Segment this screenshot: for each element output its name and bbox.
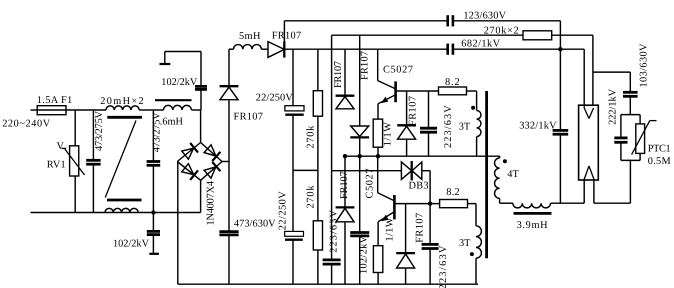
wire: rail2 left corner [332, 34, 523, 36]
svg-text:102/2kV: 102/2kV [359, 235, 370, 274]
svg-text:C5027: C5027 [365, 169, 376, 199]
wire: half-bridge midpoint [345, 155, 477, 157]
label 102/2kV top [161, 77, 198, 88]
bridge rectifier 1N4007X4 frame [177, 143, 222, 181]
svg-text:682/1kV: 682/1kV [461, 39, 500, 50]
svg-text:270k: 270k [306, 125, 317, 149]
label C5027 Q1 [383, 64, 413, 75]
svg-text:.6mH: .6mH [160, 117, 184, 128]
label 103/630V [638, 43, 649, 88]
transistor Q1 C5027 [378, 81, 396, 104]
label 4T [507, 169, 519, 180]
wire: 5mH to FR107 [261, 48, 268, 50]
wire: rail2 drop (startup node) [331, 35, 333, 260]
phase dot 3T upper [471, 106, 475, 110]
svg-text:473/275V: 473/275V [94, 110, 105, 151]
wire: divider midpoint [293, 169, 318, 171]
bridge diode D-br [204, 162, 220, 178]
resistor 270k upper [313, 49, 322, 221]
label RV1 [47, 160, 66, 171]
capacitor 682/1kV [448, 44, 453, 55]
svg-text:FR107: FR107 [408, 96, 419, 126]
diac DB3 [401, 161, 421, 180]
svg-text:22/250V: 22/250V [256, 93, 294, 104]
label .6mH [160, 117, 184, 128]
wire: lamp pin top-left [583, 49, 585, 108]
capacitor 102/2kV bottom stub [147, 213, 160, 254]
svg-text:8.2: 8.2 [446, 187, 459, 198]
capacitor 223/63V startup [323, 260, 341, 284]
resistor 1/1W Q2 emitter [373, 222, 382, 284]
label FR107 D1 [333, 61, 344, 88]
junction dot midpoint left [343, 154, 347, 158]
label DB3 [409, 181, 429, 192]
common-mode choke core bars and coupling [105, 117, 142, 200]
label 473/275V #2 [152, 112, 163, 153]
diode FR107 D4 (Q1 base) [397, 91, 416, 156]
svg-text:3.9mH: 3.9mH [517, 220, 549, 231]
svg-text:5mH: 5mH [239, 31, 261, 42]
svg-text:3T: 3T [459, 238, 471, 249]
label V [57, 141, 65, 152]
lamp filament bottom [584, 166, 594, 180]
fluorescent lamp tube [579, 105, 599, 180]
diode FR107 vertical (pump) [220, 49, 239, 99]
phase dot 4T [503, 159, 507, 163]
capacitor 103/630V [623, 72, 638, 115]
diode FR107 D1 [336, 49, 355, 109]
label 8.2 Q1 [445, 77, 460, 88]
label 270k×2 [484, 25, 519, 36]
wire: Q2 base wire [394, 203, 439, 205]
wire: AC neutral input bottom [31, 212, 201, 214]
svg-text:FR107: FR107 [272, 30, 301, 41]
capacitor 222/1kV [614, 115, 627, 161]
label 20mH×2 [100, 96, 144, 107]
label 3T lower [459, 238, 471, 249]
label 8.2 Q2 [446, 187, 459, 198]
capacitor 102/2kV mid [350, 156, 369, 284]
svg-text:103/630V: 103/630V [638, 43, 649, 88]
svg-text:22/250V: 22/250V [277, 191, 288, 231]
svg-text:0.5M: 0.5M [648, 156, 671, 167]
capacitor 102/2kV top with stub plate [160, 52, 208, 111]
wire: ground rail [178, 283, 478, 285]
label 1.5A F1 [37, 95, 73, 106]
bridge diode D-bl [182, 164, 198, 180]
wire: Q1 collector [377, 49, 379, 80]
wire: bridge bottom riser to neutral [200, 180, 202, 212]
resistor 1/1W Q1 emitter [373, 104, 382, 156]
svg-text:FR107: FR107 [234, 111, 263, 122]
thermistor PTC1 0.5M [632, 115, 657, 161]
wire: bridge minus to ground rail [177, 162, 179, 285]
junction dot input bottom [151, 210, 155, 214]
label 222/1kV [607, 88, 618, 125]
capacitor 473/630V [219, 232, 238, 285]
capacitor 123/630V [448, 15, 453, 26]
wire: top line choke to cap2 [139, 109, 153, 111]
junction dot midpoint mid [358, 154, 362, 158]
capacitor 473/275V #1 [86, 110, 100, 213]
svg-text:RV1: RV1 [47, 160, 66, 171]
winding 3T lower [476, 226, 481, 284]
junction dot midpoint right [376, 154, 380, 158]
label 270k upper [306, 125, 317, 149]
fuse F1 1.5A [37, 106, 66, 115]
label 473/275V #1 [94, 110, 105, 151]
wire: top rail left [284, 20, 447, 22]
diode FR107 horizontal (to bus) [268, 41, 284, 57]
capacitor 332/1kV [553, 49, 569, 203]
svg-text:1.5A F1: 1.5A F1 [37, 95, 73, 106]
label 102/2kV bottom [113, 239, 150, 250]
label 220~240V [2, 119, 51, 130]
svg-text:222/1kV: 222/1kV [607, 88, 618, 125]
wire: resonant node to lamp [551, 180, 585, 203]
svg-text:223/63V: 223/63V [443, 105, 454, 148]
label 473/630V [234, 219, 276, 230]
svg-text:V: V [57, 141, 65, 152]
diode FR107 D2 [350, 35, 369, 156]
lamp filament top [584, 105, 593, 118]
label PTC1 [648, 144, 671, 155]
svg-text:123/630V: 123/630V [463, 10, 506, 21]
wire: diac to Q2 base [422, 171, 430, 204]
svg-text:473/630V: 473/630V [234, 219, 276, 230]
wire: PTC parallel top bar [621, 114, 640, 116]
label FR107 D5 [414, 213, 425, 243]
svg-text:223/63V: 223/63V [438, 245, 449, 288]
svg-text:4T: 4T [507, 169, 519, 180]
svg-text:1N4007X4: 1N4007X4 [206, 181, 217, 226]
inductor .6mH with core [153, 100, 201, 110]
svg-text:C5027: C5027 [383, 64, 413, 75]
label 102/2kV mid [359, 235, 370, 274]
label 682/1kV [461, 39, 500, 50]
label 22/250V lower [277, 191, 288, 231]
bridge diode D-tl [182, 143, 198, 159]
svg-text:FR107: FR107 [333, 61, 344, 88]
label 123/630V [463, 10, 506, 21]
wire: DC bus left [284, 48, 447, 50]
winding 3T upper [477, 110, 481, 156]
capacitor 22/250V lower [285, 170, 304, 284]
varistor RV1 [62, 110, 85, 213]
label 3T upper [459, 122, 471, 133]
label 223/63V Q1 [443, 105, 454, 148]
resistor 270k lower [313, 221, 322, 284]
svg-text:270k: 270k [306, 185, 317, 209]
wire: 8.2 to 3T lower [468, 204, 477, 226]
junction dot Q2 base [428, 201, 432, 205]
label FR107 (bus diode) [272, 30, 301, 41]
svg-text:20mH×2: 20mH×2 [100, 96, 144, 107]
svg-text:3T: 3T [459, 122, 471, 133]
wire: PTC parallel bottom bar [621, 159, 640, 161]
label FR107 D3 [339, 171, 350, 199]
junction dot bus/top-rail [558, 47, 562, 51]
svg-text:PTC1: PTC1 [648, 144, 671, 155]
label FR107 (pump diode) [234, 111, 263, 122]
svg-text:223/63V: 223/63V [328, 210, 339, 253]
common-mode choke 20mH×2 winding top [106, 106, 139, 110]
capacitor 223/63V Q2 [422, 204, 439, 285]
wire: AC line input top [31, 109, 38, 111]
resistor 270k×2 [523, 31, 552, 40]
wire: bridge plus to DC node [222, 100, 229, 231]
svg-text:FR107: FR107 [414, 213, 425, 243]
wire: 8.2 to 3T upper [467, 91, 477, 111]
wire: Q1 base wire [396, 90, 439, 92]
inductor 3.9mH with core [513, 203, 552, 213]
common-mode choke winding bottom [105, 208, 138, 212]
wire: PTC branch feed [594, 71, 631, 73]
capacitor 22/250V upper [285, 49, 304, 170]
label 22/250V upper [256, 93, 294, 104]
label 1/1W Q2 [384, 217, 395, 241]
label 0.5M [648, 156, 671, 167]
label 5mH [239, 31, 261, 42]
svg-text:332/1kV: 332/1kV [519, 120, 557, 131]
svg-text:102/2kV: 102/2kV [113, 239, 150, 250]
wire: bridge top riser [200, 110, 202, 143]
resistor 8.2 Q1 [439, 87, 467, 95]
label 270k lower [306, 185, 317, 209]
wire: rail2 to lamp pin [552, 35, 593, 108]
diode FR107 D3 [336, 156, 355, 284]
svg-text:270k×2: 270k×2 [484, 25, 519, 36]
label 3.9mH [517, 220, 549, 231]
wire: DC bus right [453, 48, 584, 50]
inductor 5mH [229, 45, 261, 50]
wire: top rail right [453, 21, 560, 49]
diode FR107 D5 (Q2 base) [396, 204, 415, 285]
svg-text:1/1W: 1/1W [384, 217, 395, 241]
svg-text:1/1W: 1/1W [382, 122, 393, 146]
svg-text:FR107: FR107 [339, 171, 350, 199]
label 332/1kV [519, 120, 557, 131]
label 223/63V Q2 [438, 245, 449, 288]
wire: lamp pin bottom-right [594, 160, 631, 203]
label 223/63V startup [328, 210, 339, 253]
wire: diac feed [332, 170, 402, 172]
svg-text:DB3: DB3 [409, 181, 429, 192]
label FR107 D2 [359, 51, 370, 80]
label 1/1W Q1 [382, 122, 393, 146]
transistor Q2 C5027 [378, 193, 395, 222]
wire: top rail riser [283, 21, 285, 49]
bridge diode D-tr [204, 145, 220, 161]
label 1N4007X4 [206, 181, 217, 226]
label FR107 D4 [408, 96, 419, 126]
svg-text:102/2kV: 102/2kV [161, 77, 198, 88]
phase dot 3T lower [470, 252, 474, 256]
resistor 8.2 Q2 [440, 200, 468, 208]
wire: top line fuse to choke [66, 109, 106, 111]
transformer core [485, 91, 488, 258]
winding 4T [477, 156, 513, 203]
capacitor 473/275V #2 [147, 110, 161, 213]
capacitor 223/63V Q1 [420, 91, 437, 156]
label C5027 Q2 [365, 169, 376, 199]
svg-text:8.2: 8.2 [445, 77, 460, 88]
svg-text:FR107: FR107 [359, 51, 370, 80]
wire: Q2 collector [377, 156, 379, 193]
svg-text:220~240V: 220~240V [2, 119, 51, 130]
